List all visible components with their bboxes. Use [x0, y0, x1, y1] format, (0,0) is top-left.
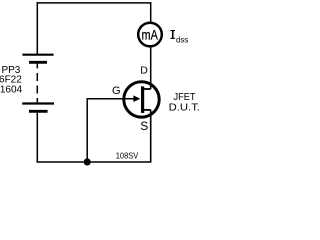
svg-text:S: S [140, 119, 148, 133]
svg-text:dss: dss [176, 35, 188, 44]
wire: left vertical lower (battery - to bottom rail) [36, 112, 38, 162]
wire: left vertical upper (to battery +) [36, 2, 38, 54]
ammeter M1 circle [138, 23, 162, 47]
transistor Q1 drain lead [143, 88, 151, 90]
svg-text:D.U.T.: D.U.T. [169, 102, 200, 113]
svg-text:D: D [140, 65, 148, 77]
wire: ammeter to drain [150, 47, 152, 89]
transistor Q1 gate arrowhead [133, 95, 140, 102]
svg-text:G: G [112, 85, 121, 97]
wire: source to bottom rail [150, 110, 152, 163]
transistor Q1 JFET envelope circle [124, 82, 159, 117]
battery B1 dashed inter-cell link [36, 73, 38, 81]
battery B1 cell2 long plate (+) [22, 102, 54, 104]
wire: top horizontal (battery + to ammeter) [37, 2, 152, 4]
svg-text:mA: mA [142, 27, 158, 42]
svg-text:108SV: 108SV [116, 150, 139, 160]
battery B1 cell1 short plate (-) [29, 61, 47, 64]
label battery value PP3 6F22 1604 [0, 65, 23, 95]
label Idss [170, 30, 188, 44]
wire: gate return vertical [86, 99, 88, 162]
battery B1 stub below cell1 [36, 64, 38, 69]
wire: gate horizontal [87, 98, 138, 100]
wire: top rail to ammeter [150, 2, 152, 22]
battery B1 cell1 long plate (+) [22, 54, 53, 56]
junction node (gate to bottom rail) [84, 158, 91, 165]
transistor Q1 source lead [143, 109, 151, 111]
svg-text:1604: 1604 [0, 84, 23, 95]
transistor Q1 channel bar [141, 86, 144, 113]
battery B1 cell2 short plate (-) [29, 110, 48, 113]
wire: bottom rail [37, 161, 151, 163]
